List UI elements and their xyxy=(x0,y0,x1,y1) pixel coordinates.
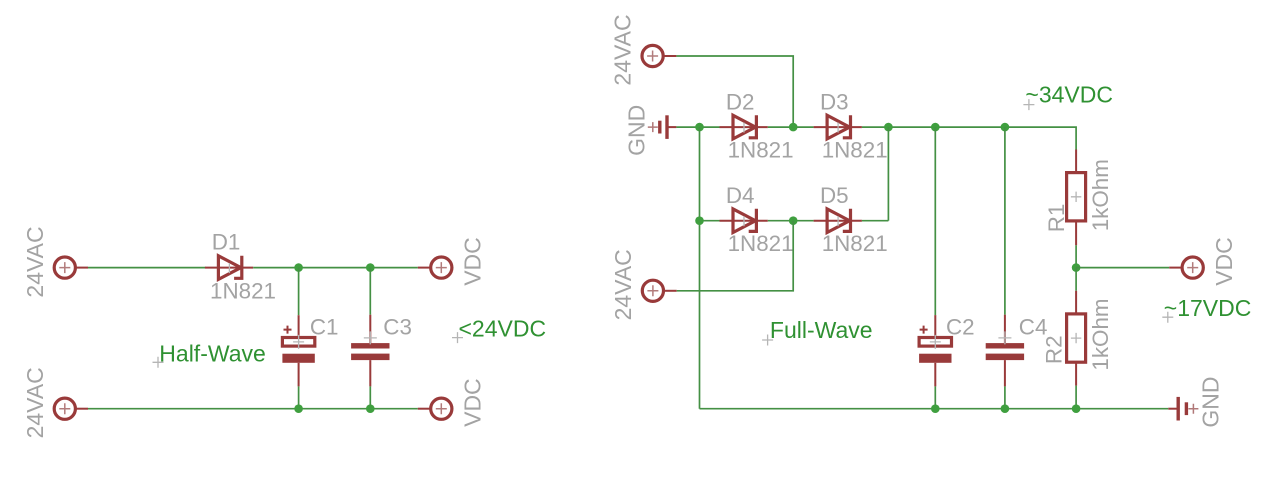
svg-text:GND: GND xyxy=(624,105,650,156)
wire DC+ to C2 xyxy=(934,127,936,315)
junction bottom of C2 xyxy=(931,404,940,413)
junction bottom of C3 xyxy=(366,404,375,413)
wire 24VAC top to bridge node AC1 xyxy=(676,56,793,127)
origin cross ~17VDC label xyxy=(1162,312,1173,323)
svg-text:D4: D4 xyxy=(726,183,755,208)
junction node AC2 xyxy=(789,216,798,225)
svg-text:GND: GND xyxy=(1197,376,1223,427)
terminal 24VAC bottom-left xyxy=(54,398,88,419)
diode D3 xyxy=(814,115,862,139)
wire C4 to bottom rail xyxy=(1004,386,1006,408)
origin cross Half-Wave label xyxy=(153,357,164,368)
svg-text:VDC: VDC xyxy=(1211,237,1237,286)
svg-text:R2: R2 xyxy=(1042,335,1067,364)
origin cross ~34VDC label xyxy=(1023,99,1034,110)
capacitor C3 xyxy=(351,315,389,387)
wire C1 to bottom rail xyxy=(298,386,300,408)
svg-text:24VAC: 24VAC xyxy=(610,14,636,85)
svg-text:VDC: VDC xyxy=(460,378,486,427)
svg-text:D3: D3 xyxy=(820,89,849,114)
diode D2 xyxy=(720,115,768,139)
svg-text:C1: C1 xyxy=(310,315,339,340)
wire R2 to bottom rail xyxy=(1075,386,1077,409)
svg-text:1N821: 1N821 xyxy=(728,137,794,162)
wire junction to C1 xyxy=(298,268,300,316)
svg-text:~34VDC: ~34VDC xyxy=(1025,81,1113,107)
wire bottom rail half-wave xyxy=(88,408,418,410)
svg-text:24VAC: 24VAC xyxy=(22,367,48,438)
svg-text:1kOhm: 1kOhm xyxy=(1088,298,1113,370)
junction top of C1 xyxy=(294,263,303,272)
svg-text:C3: C3 xyxy=(383,315,412,340)
junction top of C2 xyxy=(931,123,940,132)
wire 24VAC bottom to node AC2 xyxy=(677,221,794,291)
wire C2 to bottom rail xyxy=(934,386,936,408)
wire divider to VDC terminal xyxy=(1076,267,1169,269)
svg-text:D2: D2 xyxy=(726,89,755,114)
wire D2 to D3 xyxy=(768,126,814,128)
ground GND left xyxy=(648,115,677,139)
junction top of C4 xyxy=(1001,123,1010,132)
svg-text:D5: D5 xyxy=(820,183,849,208)
svg-text:24VAC: 24VAC xyxy=(22,226,48,297)
terminal VDC top-right (half-wave) xyxy=(418,257,452,278)
wire riser D5 to DC+ xyxy=(887,127,889,221)
resistor R2 xyxy=(1067,291,1086,386)
junction bottom of C1 xyxy=(294,404,303,413)
svg-text:24VAC: 24VAC xyxy=(610,249,636,320)
svg-text:1N821: 1N821 xyxy=(822,137,888,162)
wire DC+ to C4 xyxy=(1004,127,1006,315)
svg-text:1N821: 1N821 xyxy=(822,231,888,256)
wire D1 to VDC xyxy=(253,267,418,269)
wire junction to C3 xyxy=(369,268,371,315)
svg-text:R1: R1 xyxy=(1044,204,1069,233)
svg-text:1N821: 1N821 xyxy=(210,279,276,304)
resistor R1 xyxy=(1067,150,1086,246)
svg-text:1N821: 1N821 xyxy=(728,231,794,256)
junction top of C3 xyxy=(366,263,375,272)
terminal VDC bottom-right (half-wave) xyxy=(418,398,452,419)
svg-text:C2: C2 xyxy=(946,315,975,340)
capacitor C4 xyxy=(986,315,1024,387)
ground GND right xyxy=(1168,397,1198,421)
diode D4 xyxy=(720,209,768,233)
svg-text:~17VDC: ~17VDC xyxy=(1164,295,1252,321)
origin cross &lt;24VDC label xyxy=(452,332,463,343)
capacitor C2 xyxy=(919,315,951,386)
diode D1 xyxy=(205,256,253,280)
origin cross Full-Wave label xyxy=(762,335,773,346)
junction GND rail top xyxy=(695,123,704,132)
wire bottom rail full-wave xyxy=(700,408,1169,410)
junction D5 riser xyxy=(884,123,893,132)
diode D5 xyxy=(814,209,862,233)
junction GND rail row2 xyxy=(695,216,704,225)
svg-text:<24VDC: <24VDC xyxy=(459,316,547,342)
wire divider to R2 xyxy=(1075,268,1077,291)
wire D5 to riser xyxy=(862,220,889,222)
terminal 24VAC top (full-wave) xyxy=(642,45,676,66)
terminal 24VAC top-left xyxy=(54,257,88,278)
svg-text:1kOhm: 1kOhm xyxy=(1088,159,1113,231)
capacitor C1 xyxy=(282,315,314,386)
junction bottom of R2 xyxy=(1072,404,1081,413)
wire GND rail to D4 xyxy=(700,220,720,222)
wire D4 to D5 xyxy=(768,220,814,222)
svg-text:VDC: VDC xyxy=(460,237,486,286)
wire C3 to bottom rail xyxy=(369,386,371,408)
svg-text:D1: D1 xyxy=(212,230,241,255)
wire D3 to R1 (DC+ rail) xyxy=(862,127,1076,149)
junction bottom of C4 xyxy=(1001,404,1010,413)
wire 24VAC to D1 xyxy=(88,267,206,269)
junction VDC divider xyxy=(1072,263,1081,272)
wire R1 to mid junction xyxy=(1075,245,1077,267)
wire GND to D2 xyxy=(676,126,719,128)
svg-text:Half-Wave: Half-Wave xyxy=(159,340,265,366)
svg-text:Full-Wave: Full-Wave xyxy=(770,317,873,343)
wire GND rail vertical xyxy=(699,127,701,409)
terminal VDC (full-wave) xyxy=(1169,257,1203,278)
junction node AC1 xyxy=(789,123,798,132)
terminal 24VAC bottom (full-wave) xyxy=(642,280,676,301)
